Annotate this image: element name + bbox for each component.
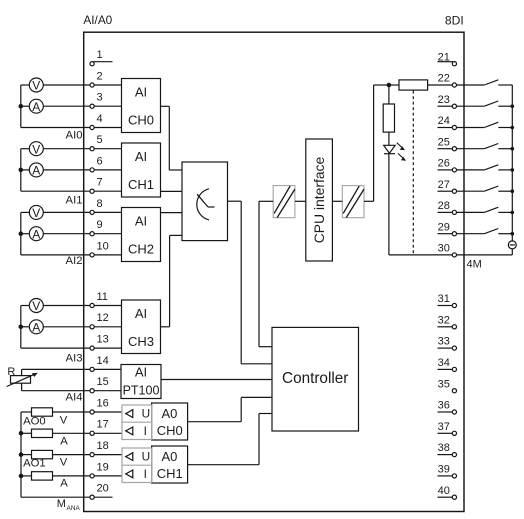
pin 13 [21,334,122,351]
label V (AO0) [60,415,68,427]
wire CPU interface to barrier T2 [332,200,342,202]
pin 22 [438,73,485,88]
svg-text:1: 1 [97,49,103,61]
label AO0 [23,415,46,427]
resistor (AO pin 19) [32,472,53,480]
svg-text:2: 2 [97,70,103,82]
svg-text:24: 24 [438,115,450,127]
svg-text:AI0: AI0 [66,130,83,142]
svg-text:AI3: AI3 [66,352,83,364]
svg-text:35: 35 [438,378,450,390]
svg-text:4M: 4M [467,259,482,271]
net label AI4 [66,391,83,403]
voltmeter V (AI1 group) [21,142,44,157]
svg-text:30: 30 [438,243,450,255]
wire A0 CH1 to controller [188,414,272,465]
pin 39 [438,464,457,479]
svg-text:39: 39 [438,464,450,476]
svg-text:ANA: ANA [67,505,81,512]
label AO1 [23,457,46,469]
wire common vertical (AI1 group) [20,149,22,192]
svg-text:CPU interface: CPU interface [311,156,327,243]
multiplexer U8 [182,162,228,241]
pin 10 [21,240,122,257]
ammeter A (AI3 group) [21,320,44,335]
svg-text:9: 9 [97,219,103,231]
supply terminal (minus) [508,241,516,249]
ammeter A (AI1 group) [21,163,44,178]
pin 29 [438,221,485,235]
svg-text:V: V [60,457,68,469]
svg-text:10: 10 [97,240,109,252]
controller U9 [272,327,359,431]
pin 19 [21,461,122,478]
svg-text:R: R [7,366,15,378]
svg-text:CH3: CH3 [128,334,154,349]
svg-text:28: 28 [438,200,450,212]
svg-text:6: 6 [97,155,103,167]
svg-text:7: 7 [97,177,103,189]
svg-text:I: I [144,467,147,481]
voltmeter V (AI3 group) [21,299,44,314]
pin 37 [438,421,457,436]
label 8DI [445,13,464,27]
CPU interface box [306,139,333,261]
wire common vertical (AI0 group) [20,85,22,128]
svg-text:22: 22 [438,73,450,85]
svg-text:19: 19 [97,461,109,473]
wire R1 to pin 22 [428,84,453,86]
svg-text:4: 4 [97,113,103,125]
svg-text:CH2: CH2 [128,242,154,257]
switch S7 (DI pin 28) [484,207,514,214]
svg-text:AI1: AI1 [66,195,83,207]
junction (AO bus pin 18) [19,452,24,457]
dashed separator [412,91,414,255]
svg-text:AI2: AI2 [66,255,83,267]
svg-text:A: A [60,477,68,489]
svg-text:21: 21 [438,51,450,63]
pin 11 [43,291,121,308]
svg-text:A: A [32,164,40,178]
label A (AO0) [60,435,68,447]
wire AI CH2 to mux [161,212,183,214]
ammeter A (AI2 group) [21,227,44,242]
pin 40 [438,485,457,500]
svg-text:AI: AI [135,214,147,229]
pin 2 [43,70,121,87]
switch S5 (DI pin 26) [484,165,514,172]
svg-text:A: A [32,100,40,114]
svg-text:AI/A0: AI/A0 [83,13,112,27]
pin 33 [438,336,457,351]
LED D1 [384,143,406,161]
net label AI2 [66,255,83,267]
pin 31 [438,293,457,308]
junction (AO bus pin 19) [19,474,24,479]
pin 9 [43,219,121,236]
wire R2 to LED [388,132,390,145]
DAC U7 (A0 CH1) [122,446,188,483]
svg-text:CH1: CH1 [128,177,154,192]
resistor (AO pin 16) [32,408,53,416]
pin 17 [21,419,122,436]
svg-text:34: 34 [438,357,450,369]
svg-text:PT100: PT100 [123,384,160,398]
pin 1 [90,49,113,66]
svg-text:8DI: 8DI [445,13,464,27]
wire barrier T2 to DI circuit [364,85,389,201]
ADC U5 (AI PT100) [121,364,161,398]
net label AI3 [66,352,83,364]
label AI/AO [83,13,112,27]
pin 18 [21,440,122,457]
svg-text:CH1: CH1 [157,466,183,481]
wire AI CH3 to mux [161,235,183,326]
junction (AO bus pin 17) [19,431,24,436]
svg-text:17: 17 [97,419,109,431]
label A (AO1) [60,477,68,489]
svg-text:AI: AI [135,85,147,100]
resistor (AO pin 18) [32,450,53,458]
wire PT100 to controller [161,379,272,381]
svg-text:AO1: AO1 [23,457,46,469]
voltmeter V (AI2 group) [21,205,44,220]
svg-text:CH0: CH0 [157,423,183,438]
svg-text:V: V [32,206,40,220]
wire mux to controller [228,201,273,364]
svg-text:13: 13 [97,334,109,346]
ADC U2 (AI CH1) [122,143,161,197]
pin 6 [43,155,121,172]
wire supply to pin 30 [457,249,513,255]
svg-text:15: 15 [97,376,109,388]
svg-text:Controller: Controller [282,370,348,387]
svg-text:29: 29 [438,221,450,233]
label M ANA [57,498,81,512]
junction (AI3 group) [19,325,24,330]
svg-text:23: 23 [438,94,450,106]
svg-text:25: 25 [438,136,450,148]
svg-text:32: 32 [438,314,450,326]
wire controller to barrier T1 [259,201,273,346]
pin 32 [438,314,457,329]
isolation barrier T1 (left) [273,186,295,218]
wire to resistor R1 [389,84,399,86]
svg-text:27: 27 [438,179,450,191]
pin 35 [438,378,457,393]
svg-text:V: V [60,415,68,427]
pin 3 [43,92,121,109]
pin 38 [438,442,457,457]
svg-text:A0: A0 [161,406,177,421]
svg-text:40: 40 [438,485,450,497]
svg-text:12: 12 [97,312,109,324]
svg-text:31: 31 [438,293,450,305]
wire barrier T1 to CPU interface [295,200,306,202]
resistor R2 (LED series) [383,104,394,132]
svg-text:I: I [144,424,147,438]
resistor R1 (input) [399,80,428,90]
ADC U1 (AI CH0) [122,79,161,133]
pin 20 [21,483,113,500]
svg-text:AI: AI [135,364,147,379]
pin 21 [438,51,457,66]
wire common vertical (AI3 group) [20,306,22,349]
pin 24 [438,115,485,130]
pin 5 [43,134,121,151]
svg-text:CH0: CH0 [128,113,154,128]
RTD resistor R [7,366,38,391]
svg-text:11: 11 [97,291,108,303]
module outline [84,32,464,511]
net label AI0 [66,130,83,142]
voltmeter V (AI0 group) [21,78,44,93]
ammeter A (AI0 group) [21,99,44,114]
switch S6 (DI pin 27) [484,186,514,193]
AO common bus wire [20,412,22,497]
switch S8 (DI pin 29) [484,229,514,236]
svg-text:V: V [32,142,40,156]
pin 36 [438,400,457,415]
isolation barrier T2 (right) [342,186,364,218]
svg-text:16: 16 [97,397,109,409]
svg-text:18: 18 [97,440,109,452]
svg-text:U: U [142,407,151,421]
svg-text:U: U [142,450,151,464]
pin 12 [43,312,121,329]
junction (AI2 group) [19,231,24,236]
svg-text:5: 5 [97,134,103,146]
svg-text:14: 14 [97,355,109,367]
switch S4 (DI pin 25) [484,144,514,151]
svg-text:AI: AI [135,149,147,164]
pin 15 [22,376,121,393]
junction (AI0 group) [19,104,24,109]
DAC U6 (A0 CH0) [122,403,188,440]
junction (LED branch) [387,83,392,88]
pin 27 [438,179,485,193]
ADC U3 (AI CH2) [122,208,161,262]
svg-text:A0: A0 [161,449,177,464]
switch S1 (DI pin 22) [484,80,512,85]
wire A0 CH0 to controller [188,397,272,421]
svg-text:A: A [60,435,68,447]
pin 16 [21,397,122,414]
svg-text:20: 20 [97,483,109,495]
net label AI1 [66,195,83,207]
label V (AO1) [60,457,68,469]
svg-text:3: 3 [97,92,103,104]
svg-text:26: 26 [438,158,450,170]
svg-text:A: A [32,227,40,241]
switch S3 (DI pin 24) [484,122,514,129]
junction (AI1 group) [19,168,24,173]
pin 14 [22,355,121,372]
svg-text:AI4: AI4 [66,391,83,403]
svg-text:AI: AI [135,306,147,321]
net label 4M [467,259,482,271]
ADC U4 (AI CH3) [122,300,161,354]
svg-text:36: 36 [438,400,450,412]
wire to resistor R2 [388,85,390,104]
pin 8 [43,198,121,215]
svg-text:37: 37 [438,421,450,433]
DI common bus wire [511,85,513,241]
svg-text:A: A [32,320,40,334]
wire AI CH1 to mux [161,190,183,192]
pin 26 [438,158,485,172]
pin 28 [438,200,485,214]
svg-text:33: 33 [438,336,450,348]
svg-text:AO0: AO0 [23,415,46,427]
svg-text:M: M [57,498,66,510]
switch S2 (DI pin 23) [484,101,514,108]
svg-text:8: 8 [97,198,103,210]
resistor (AO pin 17) [32,429,53,437]
svg-text:V: V [32,299,40,313]
svg-text:38: 38 [438,442,450,454]
pin 23 [438,94,485,108]
pin 25 [438,136,485,150]
wire LED to pin 30 [389,154,452,255]
pin 30 [438,243,457,258]
pin 4 [21,113,122,130]
wire AI CH0 to mux [161,106,183,170]
pin 34 [438,357,457,372]
pin 7 [21,177,122,194]
wire common vertical (AI2 group) [20,212,22,255]
svg-text:V: V [32,79,40,93]
